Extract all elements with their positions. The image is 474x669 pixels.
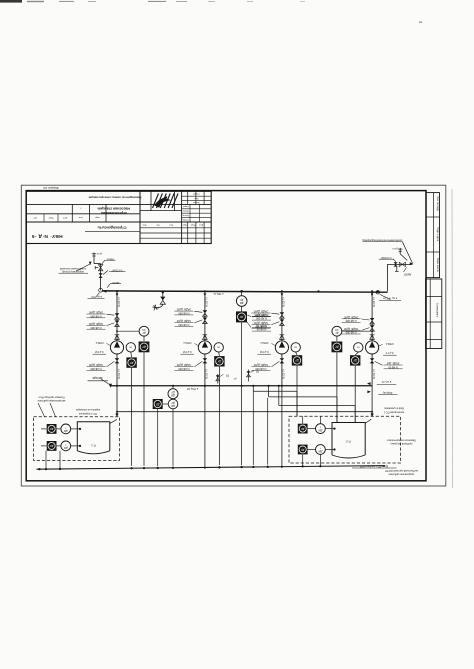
gate valve 3a (Ду80) (280, 312, 285, 315)
wire: drain bus (bottom) (37, 466, 386, 470)
svg-text:ги: ги (357, 346, 360, 349)
motor starter square 4a (332, 342, 343, 353)
wire: x253 drop (252, 392, 254, 465)
callout leaders (38, 403, 56, 417)
svg-text:НБУ· N·Д -5: НБУ· N·Д -5 (31, 233, 62, 239)
svg-text:Х-2 ГМ: Х-2 ГМ (94, 350, 103, 354)
wire motor to starter 2 (355, 352, 358, 355)
svg-text:Дата: Дата (198, 223, 203, 225)
pump circle H-4 (366, 341, 379, 354)
wire: starter-2 drop (296, 366, 298, 417)
gate valve 1a (Ду80) (115, 313, 120, 316)
svg-text:Н.контр: Н.контр (183, 214, 189, 216)
svg-text:N 218 ТУ: N 218 ТУ (119, 297, 121, 307)
motor circle M4 (354, 343, 363, 352)
wire: bus to gauge (241, 291, 243, 295)
svg-text:Стадия: Стадия (193, 192, 200, 194)
panel R wires row2 (308, 448, 336, 450)
svg-text:ДУ: ДУ (142, 331, 146, 334)
svg-text:Х-2 ГМ: Х-2 ГМ (259, 350, 268, 354)
svg-text:Полевые приборы Ясть: Полевые приборы Ясть (38, 396, 65, 399)
svg-text:Павильон измерительных: Павильон измерительных (386, 438, 416, 441)
inner drawing frame (26, 191, 426, 481)
motor circle M2 (214, 343, 223, 352)
wire: pump3 riser to drain bus (281, 386, 283, 465)
svg-text:ДУ: ДУ (295, 359, 299, 363)
left control panel (dashed enclosure) (34, 417, 120, 461)
instrument circle PI-4 (332, 326, 342, 336)
pump unit H-4 riser wire (371, 291, 373, 341)
svg-text:в зд. ПГС: в зд. ПГС (91, 295, 102, 298)
cable L3 (279, 386, 355, 423)
svg-text:Инв. № подл.: Инв. № подл. (436, 197, 439, 212)
svg-text:Подп: Подп (191, 223, 196, 225)
svg-text:г: г (80, 207, 81, 210)
motor starter square 1b (126, 357, 136, 367)
svg-text:Утверд: Утверд (182, 218, 189, 220)
svg-text:в ч2 с N: в ч2 с N (382, 380, 392, 384)
svg-text:т: т (64, 426, 66, 429)
cable L2 (269, 386, 337, 423)
svg-text:П-2: П-2 (346, 439, 351, 443)
svg-text:ФВ03ДВ: ФВ03ДВ (92, 376, 102, 380)
svg-text:ДУ: ДУ (50, 427, 54, 431)
svg-text:хозяйственно-питьевой: хозяйственно-питьевой (59, 267, 86, 270)
gate valve 2b (Ду80) (203, 318, 208, 321)
svg-text:Nдок: Nдок (182, 223, 187, 225)
scan artifact dashes top edge (0, 0, 422, 23)
check valve 3 (280, 335, 285, 340)
wire PLC2 to riser (365, 419, 371, 423)
wire: panel-to-panel link (117, 411, 372, 413)
wire instrument to starter (336, 336, 338, 341)
svg-text:Х-2 ГУ: Х-2 ГУ (385, 351, 393, 355)
svg-text:Вotb по указанию: Вotb по указанию (384, 407, 404, 410)
inlet assembly left: city water tap (59, 252, 126, 299)
title block (основная надпись, rotated 180°) (26, 191, 211, 243)
svg-text:N 070347: N 070347 (380, 256, 391, 259)
check valve 1 (115, 335, 120, 340)
svg-text:N: N (226, 374, 229, 378)
svg-text:т: т (319, 446, 321, 449)
panel L circle 1 (61, 424, 71, 434)
panel L square 1 (47, 424, 57, 434)
svg-text:ДУ: ДУ (217, 360, 221, 364)
PLC box P-2 (332, 423, 365, 456)
svg-text:ДУ: ДУ (233, 377, 237, 379)
svg-text:в ТРЦ N7: в ТРЦ N7 (186, 387, 198, 391)
svg-text:Насосная станция: Насосная станция (98, 206, 130, 210)
faint page shadow line right (451, 189, 454, 488)
svg-text:N 218 ТУ: N 218 ТУ (207, 297, 209, 307)
drain valve (x=218) (216, 374, 237, 384)
svg-text:Nдок: Nдок (49, 216, 54, 218)
title block texts (rotated) (31, 192, 203, 239)
svg-text:проектировн ПС-1: проектировн ПС-1 (383, 410, 404, 413)
wire: starter-2 drop (131, 368, 133, 466)
motor starter square 2b (214, 356, 224, 366)
svg-text:инв: инв (78, 216, 82, 218)
wire: starter drop (143, 352, 145, 465)
title block logo hatch (153, 194, 179, 209)
panel L square 2 (47, 441, 57, 451)
svg-text:АВ05Г: АВ05Г (106, 257, 114, 260)
wire: bypass drop (241, 322, 243, 465)
panel R wires row1 (308, 428, 336, 430)
svg-text:лист: лист (33, 216, 37, 218)
cable L1 into right panel (253, 386, 297, 417)
check valve 2 (203, 335, 208, 340)
inlet assembly right: city water tap (362, 238, 413, 300)
motor starter square 4b (350, 355, 360, 365)
discharge black valve 4 (371, 354, 373, 386)
discharge black valve 3 (281, 354, 283, 386)
svg-text:ДМ: ДМ (64, 446, 68, 449)
svg-text:1/4: 1/4 (335, 328, 339, 331)
svg-text:в ТРЦ №: в ТРЦ № (213, 292, 223, 295)
svg-text:П-1: П-1 (91, 443, 96, 447)
svg-text:СПМ-1: СПМ-1 (385, 342, 394, 346)
svg-text:Листов: Листов (193, 201, 200, 203)
pump circle H-1 (110, 341, 123, 354)
svg-text:N 219 ТУ: N 219 ТУ (119, 369, 121, 379)
svg-text:N 219 ТУ: N 219 ТУ (374, 369, 376, 379)
svg-text:ДУ: ДУ (171, 401, 175, 404)
svg-text:N 218 ТУ: N 218 ТУ (284, 297, 286, 307)
panel R square 1 (298, 424, 308, 434)
R panel bottom stubs to drain bus (302, 454, 322, 467)
motor circle M1 (126, 343, 135, 352)
svg-text:Лист: Лист (194, 197, 198, 199)
svg-text:СПМ-1: СПМ-1 (183, 341, 192, 345)
svg-text:Разраб: Разраб (183, 205, 189, 207)
wire: pump1 riser to left panel (116, 386, 118, 415)
wire instrument to starter (143, 336, 145, 341)
wire PLC to riser (110, 419, 117, 423)
panel R square 2 (298, 445, 308, 455)
pressure gauge DM (236, 296, 247, 307)
svg-text:ДУ: ДУ (335, 345, 339, 349)
svg-text:Подп. и дата: Подп. и дата (436, 227, 439, 242)
right margin column strip (rotated frame graphs) (426, 193, 442, 349)
svg-text:Изм: Изм (142, 223, 146, 225)
wire: starter-2 drop (354, 366, 356, 423)
svg-text:г: г (97, 207, 98, 210)
outer sheet edge (21, 185, 446, 486)
flow arrow on riser (281, 293, 284, 296)
svg-text:ДУ: ДУ (156, 402, 160, 406)
svg-text:ДУ: ДУ (50, 444, 54, 448)
wires panel to drain bus (46, 451, 60, 469)
inst square (153, 399, 163, 409)
svg-text:ДУ15: ДУ15 (96, 252, 102, 254)
wire to instrument (342, 330, 372, 332)
wire: starter-2 drop (218, 367, 220, 466)
svg-text:надпись на площадке: надпись на площадке (75, 408, 100, 411)
svg-text:автоматизация действия: автоматизация действия (37, 399, 65, 402)
svg-text:подп: подп (94, 216, 100, 218)
svg-text:на Насосной щитовой АСУТП: на Насосной щитовой АСУТП (385, 469, 418, 472)
panel R circle 1 (316, 424, 326, 434)
wire: x267.7 drop (267, 398, 269, 465)
svg-text:Лист: Лист (169, 223, 173, 225)
manifold junctions (116, 385, 283, 387)
svg-text:ДУ: ДУ (171, 391, 175, 394)
svg-text:ДУ: ДУ (240, 298, 244, 301)
svg-text:в зд. ПГС №: в зд. ПГС № (383, 297, 398, 300)
svg-text:ДМ: ДМ (319, 449, 323, 452)
right control panel (dashed enclosure) (289, 416, 401, 463)
wire: pump4 riser to right panel (371, 386, 373, 415)
svg-text:Взам. инв.№: Взам. инв.№ (436, 258, 439, 273)
gate valve 3b (Ду80) (280, 319, 285, 322)
svg-text:ДМ: ДМ (171, 394, 175, 397)
motor starter square 1a (139, 342, 150, 353)
svg-text:ДМ: ДМ (240, 301, 244, 304)
svg-text:ДУ: ДУ (142, 345, 146, 349)
discharge black valve 1 (116, 354, 118, 386)
svg-text:АВ05Г: АВ05Г (403, 272, 411, 275)
svg-text:ги: ги (217, 346, 220, 349)
gate valve 2a (Ду80) (203, 310, 208, 313)
pump circle H-2 (198, 341, 211, 354)
svg-text:СПМ-1: СПМ-1 (95, 341, 104, 345)
drain bus junction dots (38, 466, 283, 471)
svg-text:Провер: Провер (183, 210, 189, 212)
svg-text:ДУ: ДУ (301, 448, 305, 452)
svg-text:СПМ-1: СПМ-1 (260, 341, 269, 345)
svg-text:ДМ: ДМ (319, 429, 323, 432)
pump unit H-1 riser wire (116, 291, 118, 341)
wire: suction manifold (top bus) (102, 291, 388, 292)
svg-text:Кол: Кол (156, 223, 159, 225)
wire: discharge manifold (110, 385, 372, 387)
svg-text:т: т (64, 443, 66, 446)
svg-text:ДМ: ДМ (64, 429, 68, 432)
wire: pump2 riser to drain bus (204, 386, 206, 466)
svg-text:ДУ: ДУ (301, 427, 305, 431)
svg-text:ДУ: ДУ (335, 331, 339, 334)
gate valve 4b (Ду80) (370, 325, 375, 328)
pump unit H-3 riser wire (281, 291, 283, 341)
svg-text:Строжпденсыть: Строжпденсыть (97, 226, 127, 230)
wire motor to starter 2 (218, 352, 221, 356)
svg-text:водопровод (город): водопровод (город) (62, 270, 84, 273)
wires cluster (158, 385, 174, 466)
instrument circle PI-1 (139, 326, 149, 336)
svg-text:N 218 ТУ: N 218 ТУ (374, 297, 376, 307)
inst circle b (168, 399, 178, 409)
pump circle H-3 (275, 341, 288, 354)
gate valve 1b (Ду80) (115, 320, 120, 323)
check valve 4 (370, 335, 375, 340)
flow arrow on riser (371, 293, 374, 296)
svg-text:N 219 ТУ: N 219 ТУ (207, 369, 209, 379)
svg-text:1/4: 1/4 (142, 328, 146, 331)
svg-text:Руководитель смены электростан: Руководитель смены электростанции (88, 195, 141, 199)
svg-text:Формат А4: Формат А4 (43, 186, 58, 190)
node: bus junctions (116, 290, 379, 293)
svg-text:хозяйственно-питьевой водопров: хозяйственно-питьевой водопровод (362, 238, 402, 241)
panel wires row1 (41, 428, 81, 430)
wire motor to starter 2 (296, 352, 297, 355)
drain valve assembly below suction bus (152, 291, 165, 310)
pump unit H-2 riser wire (204, 291, 206, 341)
svg-text:Согласовано: Согласовано (436, 303, 439, 318)
valve note at pump4 riser (367, 390, 370, 393)
panel wires row2 (41, 445, 81, 447)
flow arrow on riser (204, 293, 207, 296)
inst circle a (168, 389, 178, 399)
drain valve (x=248.5) (247, 370, 259, 382)
svg-text:ги: ги (294, 346, 297, 349)
svg-text:ДУ: ДУ (353, 359, 357, 363)
manifold left end arrow + note (109, 384, 112, 388)
motor starter square 3b (292, 355, 302, 365)
svg-text:N 070347: N 070347 (111, 268, 122, 271)
svg-text:ДУ: ДУ (130, 361, 134, 365)
svg-text:предъявлено действия: предъявлено действия (388, 473, 414, 476)
wire: starter drop (336, 352, 338, 422)
svg-text:т: т (319, 426, 321, 429)
discharge black valve 2 (204, 354, 206, 386)
svg-text:приборов натурные: приборов натурные (390, 442, 413, 445)
PLC box P-1 (77, 422, 110, 451)
svg-text:перекачивания: перекачивания (101, 211, 127, 215)
motor circle M3 (291, 343, 300, 352)
svg-text:ДУ15: ДУ15 (392, 247, 398, 249)
panel R circle 2 (316, 445, 326, 455)
panel L circle 2 (61, 441, 71, 451)
svg-text:ДМ: ДМ (171, 404, 175, 407)
manifold right end arrow + note (367, 382, 371, 385)
wire (241, 306, 243, 311)
svg-text:дата: дата (62, 216, 67, 218)
svg-text:ПС-1 подрядчик: ПС-1 подрядчик (78, 412, 97, 415)
gate valve 4a (Ду80) (370, 318, 375, 321)
svg-text:Х-2 ГМ: Х-2 ГМ (182, 350, 191, 354)
R squares feed stubs (303, 416, 321, 423)
svg-text:ги: ги (129, 346, 132, 349)
svg-text:АВ05Г: АВ05Г (111, 281, 119, 284)
flow arrow on riser (116, 293, 119, 296)
wire motor to starter 2 (130, 352, 133, 357)
svg-text:N 219 ТУ: N 219 ТУ (284, 369, 286, 379)
instrument square DM starter (236, 311, 247, 322)
svg-text:ДУ: ДУ (239, 315, 243, 319)
wire to instrument (117, 330, 139, 332)
svg-text:ЗАД ляу: ЗАД ляу (382, 391, 392, 394)
